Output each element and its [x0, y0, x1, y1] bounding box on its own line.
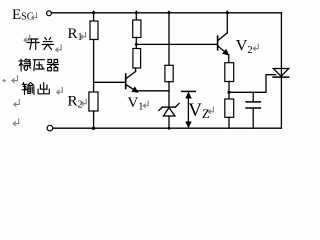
wire V1 emitter to zener node: [138, 90, 169, 92]
wire capacitor bottom lead: [252, 109, 254, 129]
resistor R6 V2 emitter upper: [225, 63, 234, 82]
text glyph 关: [42, 38, 54, 50]
paragraph marks: [3, 13, 258, 126]
wire base branch to V2: [136, 43, 217, 45]
wire top rail: [52, 12, 282, 14]
text glyph 出: [38, 83, 49, 94]
text glyph 器: [47, 60, 58, 71]
terminal output bottom: [47, 125, 53, 131]
wire R1 to R2: [93, 40, 95, 93]
zener diode VZ: [159, 103, 179, 128]
wire R7 bottom: [228, 117, 230, 128]
wire capacitor top lead: [252, 92, 254, 101]
resistor R5 zener feed: [165, 65, 173, 81]
wire zener column stub: [168, 11, 170, 65]
wire R4 to V1 collector: [135, 68, 137, 72]
wire gate network: [229, 75, 276, 93]
text glyph 开: [27, 39, 39, 50]
svg-text:V1: V1: [128, 95, 144, 113]
wire R5 to zener: [168, 82, 170, 107]
wire divider middle: [135, 38, 137, 49]
svg-text:VZ: VZ: [188, 100, 209, 121]
wire R1 top stub: [93, 11, 95, 21]
wire V1 base: [94, 81, 126, 83]
wire R6 to junction: [228, 82, 230, 100]
capacitor C: [246, 102, 260, 108]
wire bottom rail: [53, 127, 282, 129]
svg-text:ESC: ESC: [12, 7, 34, 23]
svg-text:R2: R2: [68, 94, 83, 111]
text glyph 输: [22, 83, 34, 95]
resistor R7 V2 emitter lower: [225, 99, 234, 117]
resistor R4 lower divider: [133, 49, 141, 69]
measure arrow VZ: [182, 91, 196, 127]
svg-text:R1: R1: [68, 26, 83, 43]
transistor V1: [126, 72, 138, 93]
transistor V2: [218, 11, 229, 62]
thyristor VS: [273, 69, 289, 78]
wire divider top stub: [135, 11, 137, 20]
resistor R2: [89, 92, 98, 111]
text glyph 稳: [19, 59, 31, 71]
wire R2 bottom: [93, 111, 95, 128]
terminal input top: [47, 11, 52, 16]
junction dots: [92, 11, 231, 130]
resistor R1: [90, 21, 98, 40]
resistor R3 upper divider: [133, 20, 141, 38]
svg-text:V2: V2: [236, 37, 253, 56]
text glyph 压: [33, 60, 44, 71]
wire right edge: [280, 13, 282, 128]
